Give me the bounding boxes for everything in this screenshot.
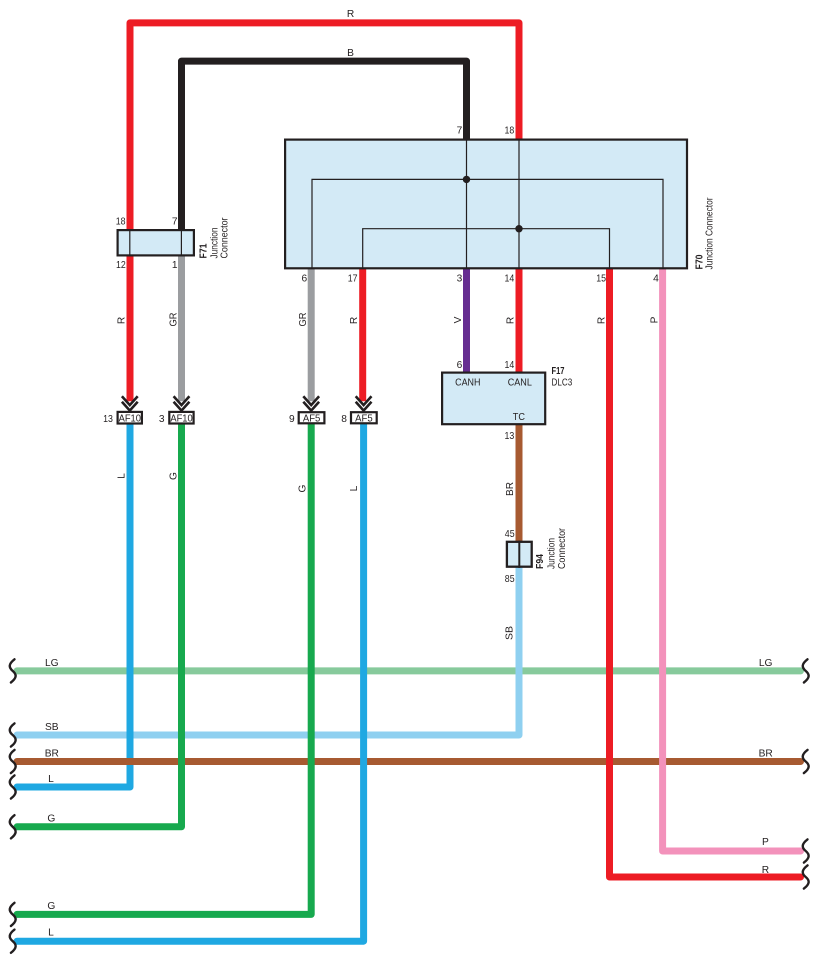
wire R (F70 pin17 to AF5) bbox=[359, 267, 366, 401]
break mark P right bbox=[803, 839, 809, 862]
svg-text:1: 1 bbox=[172, 260, 178, 271]
svg-text:LG: LG bbox=[759, 658, 773, 669]
wire L (AF5 down to left break) bbox=[17, 424, 364, 942]
svg-text:R: R bbox=[349, 317, 360, 324]
connector AF10 pin3 box bbox=[169, 412, 193, 425]
svg-text:L: L bbox=[48, 928, 54, 939]
junction dot node pin18 bus bbox=[515, 225, 522, 232]
wire R (F70 pin14 to F17 CANL pin14) bbox=[516, 267, 523, 373]
F70 internal bus line pin18-pin14 bbox=[518, 140, 520, 269]
svg-text:3: 3 bbox=[159, 414, 165, 425]
svg-text:B: B bbox=[347, 48, 354, 59]
svg-text:LG: LG bbox=[45, 658, 59, 669]
svg-text:13: 13 bbox=[505, 431, 515, 442]
svg-text:G: G bbox=[47, 814, 55, 825]
svg-text:L: L bbox=[116, 473, 127, 479]
break mark L left bbox=[10, 775, 16, 798]
svg-text:R: R bbox=[762, 865, 769, 876]
break mark BR left bbox=[10, 750, 16, 773]
svg-text:18: 18 bbox=[505, 126, 515, 137]
svg-text:Junction Connector: Junction Connector bbox=[705, 197, 716, 269]
wire SB (F94 pin85 down to left break) bbox=[17, 567, 519, 736]
wire G (AF5 down to left break) bbox=[17, 424, 311, 915]
svg-text:6: 6 bbox=[302, 274, 308, 285]
svg-text:F17: F17 bbox=[552, 366, 565, 377]
wire V (F70 pin3 to F17 CANH pin6) bbox=[463, 267, 470, 373]
svg-text:85: 85 bbox=[505, 574, 515, 585]
wire BR (full width row) bbox=[17, 758, 801, 765]
junction dot node pin7 bus bbox=[463, 176, 470, 183]
svg-text:GR: GR bbox=[298, 313, 309, 327]
svg-text:BR: BR bbox=[759, 749, 773, 760]
connector AF10 pin13 box bbox=[118, 412, 142, 425]
svg-text:F71: F71 bbox=[199, 243, 210, 258]
svg-text:17: 17 bbox=[348, 274, 358, 285]
svg-text:8: 8 bbox=[341, 414, 347, 425]
svg-text:GR: GR bbox=[168, 313, 179, 327]
svg-text:Junction: Junction bbox=[547, 538, 558, 569]
svg-text:F94: F94 bbox=[535, 554, 546, 569]
connector arrows AF10 no.13 bbox=[122, 396, 138, 410]
svg-text:AF5: AF5 bbox=[355, 414, 373, 425]
svg-text:R: R bbox=[347, 9, 354, 20]
break mark LG right bbox=[803, 659, 809, 682]
svg-text:SB: SB bbox=[504, 626, 515, 640]
svg-text:G: G bbox=[298, 484, 309, 492]
svg-text:12: 12 bbox=[116, 260, 126, 271]
svg-text:BR: BR bbox=[45, 749, 59, 760]
connector AF5 pin9 box bbox=[299, 412, 325, 424]
break mark lower G left bbox=[10, 903, 16, 926]
DLC3 connector F17 box bbox=[442, 373, 545, 425]
connector arrows AF10 no.3 bbox=[174, 396, 190, 410]
svg-text:SB: SB bbox=[45, 722, 59, 733]
svg-text:P: P bbox=[762, 837, 769, 848]
svg-text:7: 7 bbox=[457, 126, 463, 137]
connector arrows AF5 no.9 bbox=[303, 396, 319, 410]
break mark R right bbox=[803, 865, 809, 888]
svg-text:3: 3 bbox=[457, 274, 463, 285]
break mark SB left bbox=[10, 723, 16, 746]
svg-text:TC: TC bbox=[513, 412, 525, 423]
svg-text:G: G bbox=[47, 901, 55, 912]
svg-text:P: P bbox=[649, 316, 660, 323]
wire LG (full width row) bbox=[17, 667, 801, 674]
svg-text:CANL: CANL bbox=[508, 378, 532, 389]
svg-text:DLC3: DLC3 bbox=[552, 378, 573, 389]
svg-text:15: 15 bbox=[596, 274, 606, 285]
svg-text:Connector: Connector bbox=[557, 527, 568, 569]
wire R (F71 pin12 to AF10) bbox=[127, 255, 134, 401]
svg-text:L: L bbox=[349, 485, 360, 491]
wire B (F71 pin7 to F70 pin7) bbox=[182, 61, 467, 231]
svg-text:V: V bbox=[453, 316, 464, 323]
wire G (AF10 down to left break) bbox=[17, 424, 182, 827]
connector arrows AF5 no.8 bbox=[356, 396, 372, 410]
svg-text:Connector: Connector bbox=[219, 217, 230, 259]
svg-text:AF10: AF10 bbox=[170, 414, 193, 425]
wire R top (F71 pin18 to F70 pin18) bbox=[130, 23, 519, 231]
junction connector F94 box bbox=[507, 541, 532, 568]
wire GR (F70 pin6 to AF5) bbox=[308, 267, 315, 401]
F70 internal bus line pin7-pin3 bbox=[466, 140, 468, 269]
svg-text:BR: BR bbox=[505, 482, 516, 496]
svg-text:R: R bbox=[596, 317, 607, 324]
F70 internal bus pin17 to pin15 bbox=[363, 229, 610, 269]
wire P (F70 pin4 down to right break) bbox=[663, 267, 801, 851]
svg-text:CANH: CANH bbox=[455, 378, 480, 389]
F70 internal bus pin6 to pin4 bbox=[312, 179, 663, 268]
wire L (AF10 down to left break) bbox=[17, 424, 130, 788]
svg-text:L: L bbox=[48, 774, 54, 785]
junction connector F70 box bbox=[285, 140, 687, 269]
wire R (F70 pin15 down to right break) bbox=[610, 267, 801, 877]
break mark lower L left bbox=[10, 930, 16, 953]
svg-text:AF10: AF10 bbox=[119, 414, 142, 425]
svg-text:14: 14 bbox=[505, 274, 515, 285]
break mark BR right bbox=[803, 750, 809, 773]
svg-text:R: R bbox=[505, 317, 516, 324]
svg-text:14: 14 bbox=[505, 360, 515, 371]
connector AF5 pin8 box bbox=[351, 412, 377, 424]
svg-text:4: 4 bbox=[653, 274, 659, 285]
wire BR (F17 TC pin13 to F94 pin45) bbox=[516, 424, 523, 542]
break mark G left bbox=[10, 815, 16, 838]
svg-text:18: 18 bbox=[116, 216, 126, 227]
svg-text:AF5: AF5 bbox=[303, 414, 321, 425]
svg-text:9: 9 bbox=[289, 414, 295, 425]
svg-text:G: G bbox=[168, 472, 179, 480]
junction connector F71 box bbox=[118, 229, 194, 257]
svg-text:7: 7 bbox=[172, 216, 178, 227]
break mark LG left bbox=[10, 659, 16, 682]
wire GR (F71 pin1 to AF10) bbox=[178, 255, 185, 401]
svg-text:R: R bbox=[116, 317, 127, 324]
svg-text:13: 13 bbox=[103, 414, 113, 425]
svg-text:45: 45 bbox=[505, 529, 515, 540]
svg-text:6: 6 bbox=[457, 360, 463, 371]
